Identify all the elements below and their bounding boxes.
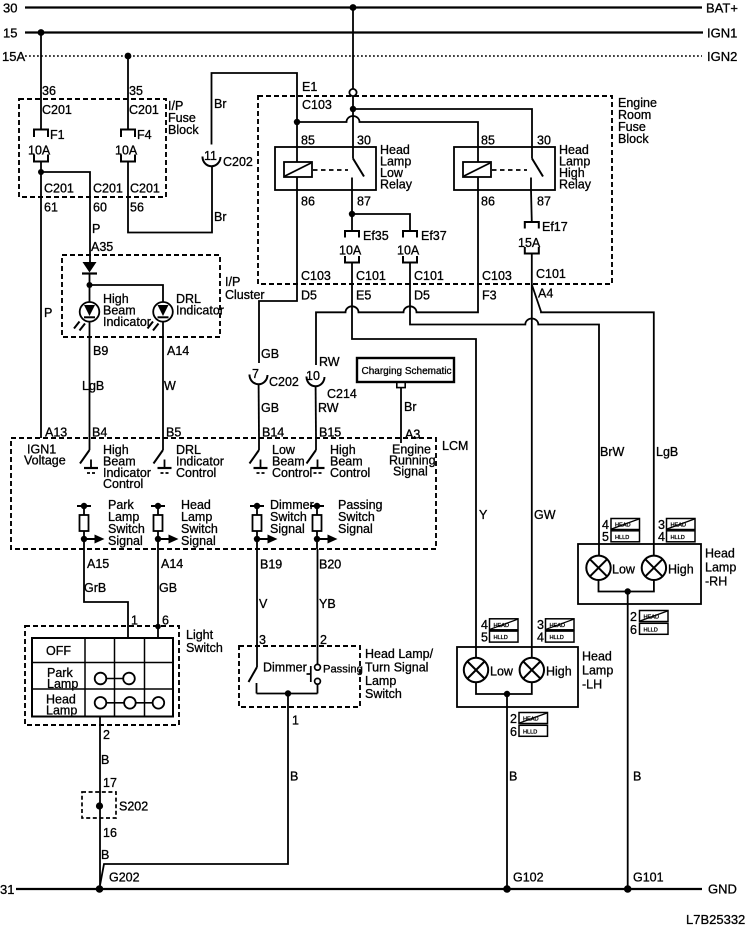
svg-text:HLLD: HLLD xyxy=(494,635,508,641)
svg-text:F4: F4 xyxy=(137,128,152,142)
svg-text:C101: C101 xyxy=(536,267,566,281)
junction node 30 feed xyxy=(350,106,356,112)
svg-text:Light: Light xyxy=(186,628,214,642)
LCM low beam control switch xyxy=(250,438,313,480)
svg-text:High: High xyxy=(668,563,694,577)
wire Ef37 D5 to RH lamp low (BrW) with hop xyxy=(410,284,599,556)
head lamp RH box xyxy=(578,544,736,604)
svg-text:4: 4 xyxy=(658,530,665,544)
svg-text:C103: C103 xyxy=(482,269,512,283)
svg-text:85: 85 xyxy=(481,134,495,148)
svg-text:1: 1 xyxy=(292,714,299,728)
wire C202-7 to LCM B14 xyxy=(258,385,260,439)
svg-text:Cluster: Cluster xyxy=(225,288,265,302)
wire B19 to dimmer switch (V) xyxy=(256,549,258,667)
svg-text:15A: 15A xyxy=(2,49,25,64)
svg-text:A3: A3 xyxy=(405,428,420,442)
head lamp LH connector labels 3/4 xyxy=(537,618,574,644)
svg-text:HLLD: HLLD xyxy=(550,635,564,641)
wire switch 1 to ground merge (B) xyxy=(100,694,289,889)
svg-text:Head: Head xyxy=(705,547,735,561)
svg-text:-LH: -LH xyxy=(582,678,602,692)
head lamp LH box xyxy=(457,647,613,707)
svg-text:16: 16 xyxy=(103,826,117,840)
head lamp RH connector labels 3/4 xyxy=(658,518,695,544)
svg-text:30: 30 xyxy=(3,1,17,16)
ground bus 31 GND xyxy=(0,882,737,898)
svg-text:2: 2 xyxy=(103,728,110,742)
svg-text:Br: Br xyxy=(214,97,227,111)
I/P fuse block box xyxy=(19,99,199,197)
head lamp LH connector labels 2/6 xyxy=(510,712,548,739)
svg-text:Lamp: Lamp xyxy=(365,674,396,688)
connector E1 C103 xyxy=(302,80,357,112)
svg-text:B: B xyxy=(509,770,517,784)
wire D5 to C202-7 (GB) xyxy=(259,284,297,363)
svg-text:Signal: Signal xyxy=(270,522,305,536)
LCM DRL indicator control switch xyxy=(154,438,224,480)
svg-text:56: 56 xyxy=(130,201,144,215)
svg-text:B14: B14 xyxy=(262,426,284,440)
pin 36 C201 xyxy=(42,84,72,117)
svg-text:4: 4 xyxy=(537,630,544,644)
svg-text:61: 61 xyxy=(44,201,58,215)
wire coil feed to high relay 85 with hop xyxy=(297,116,478,162)
svg-text:60: 60 xyxy=(93,201,107,215)
svg-text:HLLD: HLLD xyxy=(671,535,685,541)
wire B20 to passing switch (YB) xyxy=(317,549,319,665)
svg-text:Ef37: Ef37 xyxy=(421,229,447,243)
wire bus30 down to E1 xyxy=(352,8,354,90)
svg-text:Head: Head xyxy=(582,650,612,664)
wire Ef37 to C101 D5 xyxy=(409,263,411,285)
pin C201 61 xyxy=(44,182,74,215)
svg-text:Br: Br xyxy=(404,400,417,414)
wire C202 up and over to relay coils xyxy=(212,73,298,145)
svg-text:B: B xyxy=(290,770,298,784)
wire F1 to LCM A13 xyxy=(40,162,42,439)
svg-text:Voltage: Voltage xyxy=(24,454,66,468)
fuse Ef35 10A xyxy=(339,229,389,263)
junction on bus 15 xyxy=(38,29,45,36)
junction node below diode xyxy=(87,282,93,288)
light switch table xyxy=(32,638,173,718)
bulb RH low xyxy=(586,556,636,580)
svg-text:10A: 10A xyxy=(115,144,138,158)
wire E5 to LH lamp low (Y) xyxy=(352,284,476,658)
head lamp low relay xyxy=(275,134,413,209)
svg-text:YB: YB xyxy=(319,597,336,611)
svg-text:C101: C101 xyxy=(414,269,444,283)
svg-text:6: 6 xyxy=(630,623,637,637)
wire F3 to C214-10 (RW) with hops xyxy=(316,284,478,365)
wire A4 branch to RH lamp high (LgB) xyxy=(532,285,654,557)
svg-text:C201: C201 xyxy=(42,103,72,117)
svg-text:10A: 10A xyxy=(28,144,51,158)
head lamp RH connector labels 2/6 xyxy=(630,610,668,637)
wire charging schematic to LCM A3 (Br) xyxy=(400,388,402,438)
wire C214-10 to LCM B15 xyxy=(315,387,317,439)
svg-text:B: B xyxy=(101,848,109,862)
svg-text:30: 30 xyxy=(357,134,371,148)
wire E1 to low relay 30 xyxy=(352,96,354,159)
svg-text:Switch: Switch xyxy=(186,641,223,655)
svg-text:D5: D5 xyxy=(414,289,430,303)
light switch park lamp contacts xyxy=(95,673,135,685)
svg-text:P: P xyxy=(92,222,100,236)
svg-text:Relay: Relay xyxy=(559,178,592,192)
svg-text:Control: Control xyxy=(176,466,216,480)
wire Ef17 to C101 A4 xyxy=(531,254,533,285)
svg-text:LgB: LgB xyxy=(656,445,678,459)
wire F4 to C202-11 (Br) xyxy=(128,162,212,233)
svg-text:P: P xyxy=(44,306,52,320)
svg-text:Indicator: Indicator xyxy=(176,304,224,318)
ground G101 xyxy=(624,871,664,893)
wire switch common xyxy=(257,693,318,695)
engine room fuse block box xyxy=(258,96,657,284)
svg-text:I/P: I/P xyxy=(225,275,240,289)
junction below F1 xyxy=(38,169,44,175)
svg-text:HLLD: HLLD xyxy=(523,729,537,735)
ground G202 xyxy=(96,871,140,893)
LED high beam indicator xyxy=(74,292,151,331)
svg-text:11: 11 xyxy=(204,149,217,163)
svg-text:10A: 10A xyxy=(339,244,362,258)
svg-text:C201: C201 xyxy=(93,182,123,196)
LCM park lamp switch signal resistor xyxy=(77,498,145,549)
wire branch to indicator feed xyxy=(41,172,90,262)
svg-text:Switch: Switch xyxy=(365,687,402,701)
bulb LH low xyxy=(464,658,514,682)
svg-text:Lamp: Lamp xyxy=(46,704,77,718)
svg-text:C201: C201 xyxy=(44,182,74,196)
fuse Ef37 10A xyxy=(397,229,447,263)
svg-text:86: 86 xyxy=(301,195,315,209)
fuse F4 10A xyxy=(115,128,152,162)
svg-text:Relay: Relay xyxy=(380,178,413,192)
bulb LH high xyxy=(520,658,572,682)
wire low relay 87 xyxy=(351,190,353,231)
svg-text:A15: A15 xyxy=(87,557,109,571)
splice S202 xyxy=(82,792,148,818)
svg-text:Control: Control xyxy=(103,477,143,491)
svg-text:Ef17: Ef17 xyxy=(542,220,568,234)
svg-text:B19: B19 xyxy=(260,558,282,572)
bulb RH high xyxy=(642,556,694,580)
pin C101 E5 xyxy=(356,269,386,303)
wire bus15 to fuse F1 xyxy=(40,33,42,130)
svg-text:C202: C202 xyxy=(223,155,253,169)
charging schematic box xyxy=(357,358,454,388)
svg-text:Signal: Signal xyxy=(108,534,143,548)
svg-text:HLLD: HLLD xyxy=(644,627,658,633)
svg-text:Passing: Passing xyxy=(323,664,363,676)
svg-text:36: 36 xyxy=(42,84,56,98)
passing switch xyxy=(307,664,363,694)
head lamp high relay xyxy=(454,134,592,209)
junction node 87 xyxy=(349,211,355,217)
svg-text:Charging Schematic: Charging Schematic xyxy=(362,366,452,377)
pin C103 D5 xyxy=(301,269,331,303)
LCM input engine running signal xyxy=(389,438,436,479)
svg-text:Signal: Signal xyxy=(338,522,373,536)
fuse Ef17 15A xyxy=(518,220,568,254)
svg-text:B15: B15 xyxy=(319,426,341,440)
svg-text:30: 30 xyxy=(537,134,551,148)
LCM dimmer switch signal resistor xyxy=(250,498,314,549)
junction node coil feed xyxy=(294,119,300,125)
svg-text:5: 5 xyxy=(481,630,488,644)
wire bus15A to fuse F4 xyxy=(127,56,129,129)
svg-text:Br: Br xyxy=(214,210,227,224)
wire high relay 87 to Ef17 xyxy=(530,190,533,222)
pin 35 C201 xyxy=(129,84,159,117)
svg-text:Low: Low xyxy=(612,563,636,577)
svg-text:87: 87 xyxy=(357,195,371,209)
svg-text:L7B25332: L7B25332 xyxy=(686,912,745,927)
svg-text:87: 87 xyxy=(537,195,551,209)
svg-text:High: High xyxy=(546,665,572,679)
svg-text:Turn Signal: Turn Signal xyxy=(365,661,428,675)
LCM head lamp switch signal resistor xyxy=(151,498,218,549)
svg-text:5: 5 xyxy=(602,530,609,544)
svg-text:Lamp: Lamp xyxy=(47,677,78,691)
svg-text:G202: G202 xyxy=(109,871,140,885)
wire RH bulbs common xyxy=(599,580,654,889)
svg-text:GB: GB xyxy=(261,347,279,361)
svg-text:3: 3 xyxy=(259,633,266,647)
svg-text:Dimmer: Dimmer xyxy=(263,661,307,675)
LED DRL indicator xyxy=(148,292,224,331)
svg-text:RW: RW xyxy=(318,401,339,415)
head lamp RH connector labels 4/5 xyxy=(602,518,640,544)
svg-text:2: 2 xyxy=(320,633,327,647)
connector C202 pin 7 xyxy=(249,367,298,389)
svg-text:Low: Low xyxy=(490,665,514,679)
svg-text:15A: 15A xyxy=(518,236,541,250)
pin C103 F3 xyxy=(482,269,512,303)
svg-text:-RH: -RH xyxy=(705,575,727,589)
junction on bus 15A xyxy=(125,53,132,60)
diode D (indicator feed) xyxy=(82,262,97,302)
svg-text:Signal: Signal xyxy=(181,534,216,548)
svg-text:B9: B9 xyxy=(93,344,108,358)
svg-text:GrB: GrB xyxy=(84,581,106,595)
wire branch to Ef37 xyxy=(352,214,410,231)
svg-text:10: 10 xyxy=(306,369,320,383)
pin C101 A4 xyxy=(536,267,566,301)
wire high relay 86 to C103 F3 xyxy=(477,177,479,284)
svg-text:B20: B20 xyxy=(319,558,341,572)
connector C214 pin 10 xyxy=(306,369,357,401)
svg-text:OFF: OFF xyxy=(46,644,71,658)
head lamp / turn signal lamp switch box xyxy=(239,646,434,707)
wire LED1 to LCM B4 xyxy=(89,322,91,438)
svg-text:Block: Block xyxy=(618,132,649,146)
svg-text:G102: G102 xyxy=(513,871,544,885)
svg-text:6: 6 xyxy=(510,725,517,739)
wire LH bulbs common xyxy=(476,682,532,889)
connector C202 pin 11 xyxy=(202,149,252,169)
svg-text:Control: Control xyxy=(272,466,312,480)
ground G102 xyxy=(503,871,543,893)
junction node switch common xyxy=(285,690,291,696)
svg-text:C103: C103 xyxy=(302,98,332,112)
wire A14 to light switch 6 (GB) xyxy=(157,549,159,638)
wire LED2 to LCM B5 xyxy=(162,322,164,438)
svg-text:17: 17 xyxy=(103,776,117,790)
svg-text:C201: C201 xyxy=(129,103,159,117)
svg-text:F3: F3 xyxy=(482,289,497,303)
svg-text:RW: RW xyxy=(319,355,340,369)
svg-text:B: B xyxy=(633,770,641,784)
svg-text:W: W xyxy=(164,379,176,393)
svg-text:BAT+: BAT+ xyxy=(706,1,738,16)
svg-text:IGN2: IGN2 xyxy=(707,49,737,64)
junction at light switch edge xyxy=(155,624,161,630)
svg-text:Indicator: Indicator xyxy=(103,315,151,329)
head lamp LH connector labels 4/5 xyxy=(481,618,518,644)
svg-text:D5: D5 xyxy=(301,289,317,303)
svg-text:F1: F1 xyxy=(50,128,65,142)
bus 15A IGN2 xyxy=(2,49,737,64)
svg-text:C101: C101 xyxy=(356,269,386,283)
svg-text:E5: E5 xyxy=(356,289,371,303)
svg-text:E1: E1 xyxy=(302,80,317,94)
light switch head lamp contacts xyxy=(95,697,165,709)
LCM box xyxy=(11,438,468,549)
svg-text:HLLD: HLLD xyxy=(615,535,629,541)
svg-text:GW: GW xyxy=(534,508,556,522)
svg-text:Control: Control xyxy=(330,466,370,480)
svg-text:Block: Block xyxy=(168,123,199,137)
wire branch to high relay 30 xyxy=(353,109,532,159)
wire Ef35 to C101 E5 xyxy=(351,263,353,285)
svg-text:86: 86 xyxy=(481,195,495,209)
svg-text:A35: A35 xyxy=(91,240,113,254)
dimmer switch xyxy=(249,661,307,694)
wire low relay 85 xyxy=(296,122,298,162)
light switch box xyxy=(25,626,223,725)
svg-text:Lamp: Lamp xyxy=(582,664,613,678)
svg-text:B: B xyxy=(101,753,109,767)
svg-text:Ef35: Ef35 xyxy=(363,229,389,243)
svg-text:BrW: BrW xyxy=(600,445,625,459)
svg-text:V: V xyxy=(259,597,268,611)
svg-text:Y: Y xyxy=(479,508,488,522)
svg-text:C201: C201 xyxy=(130,182,160,196)
bus 15 IGN1 xyxy=(3,26,737,41)
wire low relay 86 to C103 D5 xyxy=(296,177,298,284)
pin C201 56 xyxy=(130,182,160,215)
svg-text:Head Lamp/: Head Lamp/ xyxy=(365,647,434,661)
fuse F1 10A xyxy=(28,128,65,162)
svg-text:A14: A14 xyxy=(167,344,189,358)
svg-text:IGN1: IGN1 xyxy=(707,26,737,41)
svg-text:A14: A14 xyxy=(161,557,183,571)
svg-text:G101: G101 xyxy=(633,871,664,885)
svg-text:GB: GB xyxy=(159,581,177,595)
svg-text:LgB: LgB xyxy=(82,379,104,393)
pin C201 60 xyxy=(93,182,123,215)
wire A4 to LH lamp high (GW) with hop crossing xyxy=(531,284,533,658)
svg-text:C214: C214 xyxy=(327,387,357,401)
LCM high beam indicator control switch xyxy=(80,438,151,491)
bus 30 BAT+ xyxy=(3,1,738,16)
LCM high beam control switch xyxy=(307,438,371,480)
svg-text:Signal: Signal xyxy=(393,465,428,479)
svg-text:S202: S202 xyxy=(119,800,148,814)
svg-text:C103: C103 xyxy=(301,269,331,283)
svg-text:15: 15 xyxy=(3,26,17,41)
pin C101 D5 xyxy=(414,269,444,303)
svg-text:7: 7 xyxy=(252,367,259,381)
svg-text:31: 31 xyxy=(0,882,14,897)
svg-text:GND: GND xyxy=(708,882,737,897)
junction on bus 30 xyxy=(350,4,357,11)
svg-text:85: 85 xyxy=(301,134,315,148)
svg-text:35: 35 xyxy=(129,84,143,98)
wire light switch 2 to S202 xyxy=(99,717,101,886)
I/P cluster box xyxy=(62,255,265,337)
svg-text:GB: GB xyxy=(261,401,279,415)
svg-text:A4: A4 xyxy=(538,287,553,301)
LCM passing switch signal resistor xyxy=(310,498,383,549)
LCM input IGN1 Voltage xyxy=(24,443,66,468)
svg-text:LCM: LCM xyxy=(442,439,468,453)
wire A15 to light switch 1 (GrB) xyxy=(84,549,128,637)
svg-text:10A: 10A xyxy=(397,244,420,258)
svg-text:C202: C202 xyxy=(269,375,299,389)
wire branch to DRL indicator xyxy=(90,285,164,302)
svg-text:Lamp: Lamp xyxy=(705,561,736,575)
